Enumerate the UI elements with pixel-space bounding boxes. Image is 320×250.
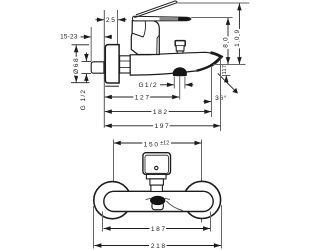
dim 187 [104,228,211,230]
neck lower [150,179,164,185]
dim 127 [105,96,179,98]
svg-text:15-23: 15-23 [60,34,78,41]
lever [133,16,191,21]
aerator bump [173,67,187,76]
svg-text:218: 218 [151,243,167,250]
svg-text:80: 80 [223,34,230,47]
dim 182 [105,111,212,113]
ext line tip y61 [213,64,246,66]
G12 stub [91,62,104,73]
ext ticks G12 left [82,60,92,62]
36 deg arrow on diagonal [232,88,238,94]
dim 25 [96,19,104,21]
ext line tip x221 [220,59,222,132]
handle skirt diagonal [132,33,143,37]
diverter knob side [175,41,185,46]
dim 117 [225,75,227,81]
dim 218 [94,245,220,247]
ext line lever y18 [191,17,232,19]
tube inner arc [166,201,183,211]
dim 80 [227,18,229,64]
svg-text:Ø68: Ø68 [73,57,80,74]
lever black tip [178,17,190,20]
paddle dot [155,166,158,169]
ext lines nipple [173,77,175,89]
ext lines tube ends [102,212,104,232]
dim 197 [105,125,221,127]
ext ticks O68 [72,44,90,46]
ext line stub left [90,27,92,62]
dim 36 deg diagonal [218,73,235,90]
svg-text:197: 197 [154,123,170,130]
lever gray section [160,17,180,21]
svg-text:G 1/2: G 1/2 [80,89,87,111]
dim 150+-12 [114,142,202,144]
handle column [131,20,159,54]
ext line right union [201,140,203,223]
hex nut [120,56,131,73]
phantom lever lines [134,1,177,18]
escutcheon side [105,45,119,83]
dim 109 [238,3,240,64]
paddle inner line [145,155,168,173]
body and spout outline [130,52,221,75]
svg-text:±12: ±12 [160,140,169,146]
neck upper [146,174,166,179]
ext lines circle edges [93,206,95,249]
right escutcheon circle [183,181,220,218]
ext line top y3 [178,2,250,4]
svg-text:117: 117 [222,65,228,75]
svg-text:109: 109 [234,27,241,47]
ext line outlet x212 [211,66,213,117]
left escutcheon circle [94,182,131,219]
spout tip heavy face curve [211,53,222,66]
escutcheon base line [105,85,119,87]
ext line left union [113,140,115,192]
wall line [103,10,105,128]
aerator front [150,196,165,205]
svg-text:25: 25 [106,17,117,24]
dim O68 [75,45,77,82]
svg-text:G1/2: G1/2 [138,82,158,89]
ext line escutcheon front [117,10,119,44]
dim G12 left arrows [85,53,87,62]
svg-text:150: 150 [144,142,160,149]
36 deg horizontal arrow [203,101,211,103]
svg-text:127: 127 [135,94,151,101]
svg-text:187: 187 [151,226,167,233]
column inner right line [157,35,160,54]
paddle front [143,153,171,175]
svg-text:36°: 36° [215,94,227,102]
column inner arc [143,20,145,37]
nipple front [152,204,164,210]
svg-text:182: 182 [153,109,169,116]
body tube front [104,191,213,211]
ext line y76 [222,75,231,77]
